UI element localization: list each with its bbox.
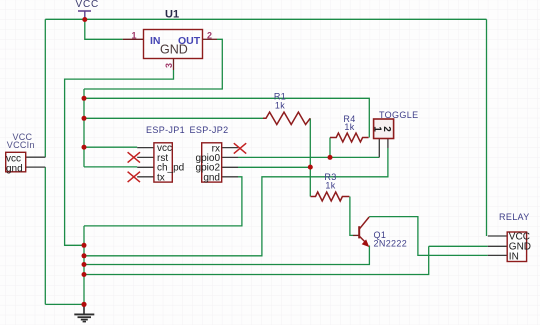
svg-text:VCC: VCC — [76, 0, 100, 10]
svg-text:TOGGLE: TOGGLE — [379, 110, 418, 120]
svg-text:1k: 1k — [275, 101, 285, 111]
svg-text:tx: tx — [157, 172, 165, 183]
svg-text:U1: U1 — [165, 9, 179, 21]
svg-text:ESP-JP2: ESP-JP2 — [190, 125, 229, 135]
svg-text:2N2222: 2N2222 — [374, 238, 408, 248]
svg-text:2: 2 — [207, 31, 212, 41]
svg-text:1k: 1k — [325, 181, 335, 191]
svg-text:1: 1 — [132, 31, 137, 41]
svg-text:IN: IN — [150, 35, 161, 47]
svg-text:GND: GND — [160, 43, 188, 57]
svg-text:gnd: gnd — [203, 172, 220, 183]
svg-text:2: 2 — [381, 126, 392, 132]
svg-text:IN: IN — [509, 252, 519, 263]
svg-text:1k: 1k — [344, 122, 354, 132]
svg-text:ESP-JP1: ESP-JP1 — [146, 125, 185, 135]
svg-text:VCCIn: VCCIn — [7, 140, 35, 150]
svg-text:RELAY: RELAY — [499, 212, 530, 222]
svg-text:3: 3 — [164, 63, 174, 68]
svg-text:gnd: gnd — [6, 163, 23, 174]
